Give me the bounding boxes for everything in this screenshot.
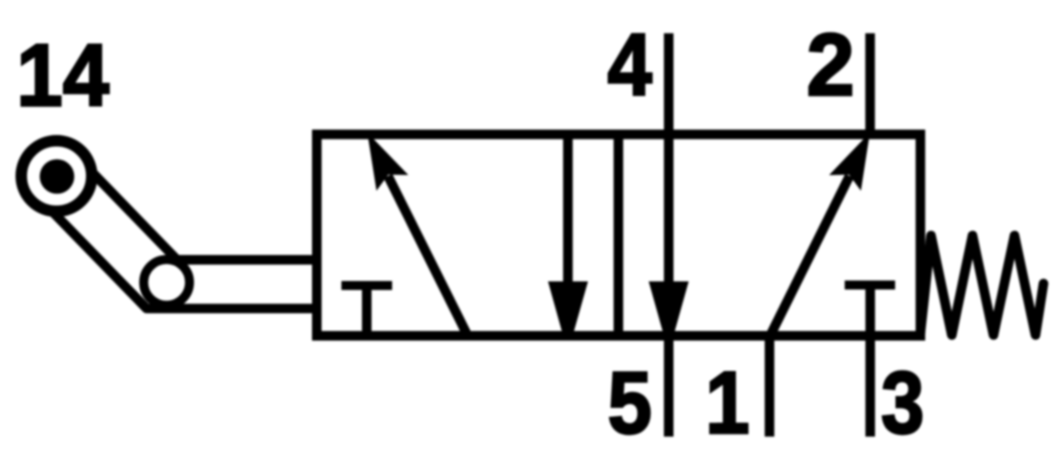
svg-text:14: 14 bbox=[16, 25, 109, 124]
svg-text:3: 3 bbox=[881, 353, 924, 452]
svg-text:5: 5 bbox=[608, 353, 652, 452]
svg-text:1: 1 bbox=[705, 353, 749, 452]
svg-text:4: 4 bbox=[608, 15, 653, 114]
svg-text:2: 2 bbox=[807, 15, 855, 114]
